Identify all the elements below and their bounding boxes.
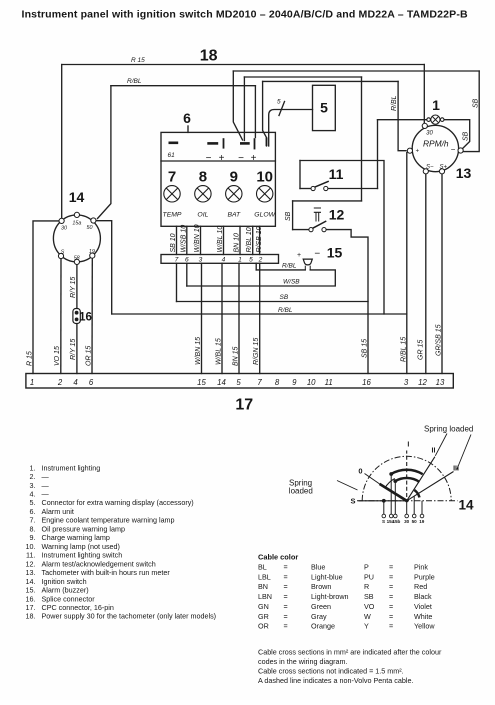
terminal stems bbox=[384, 474, 422, 514]
terminal 19 bbox=[90, 253, 95, 258]
wire drop to switch 12 bbox=[361, 77, 363, 201]
svg-text:3: 3 bbox=[404, 378, 409, 387]
svg-text:SB 10: SB 10 bbox=[170, 233, 177, 252]
lamp 1 instrument lighting bbox=[427, 115, 444, 124]
svg-text:=: = bbox=[389, 602, 393, 611]
svg-text:6: 6 bbox=[89, 378, 94, 387]
wire BN 15 to pin 5 bbox=[238, 263, 240, 373]
svg-text:Green: Green bbox=[311, 602, 331, 611]
svg-text:—: — bbox=[42, 490, 50, 499]
svg-text:0: 0 bbox=[358, 467, 362, 476]
svg-text:50: 50 bbox=[87, 225, 93, 231]
svg-text:9.: 9. bbox=[30, 533, 36, 542]
terminal 50 bbox=[91, 218, 96, 223]
svg-text:15: 15 bbox=[327, 245, 343, 261]
svg-text:—: — bbox=[42, 481, 50, 490]
svg-text:8: 8 bbox=[199, 169, 207, 186]
svg-text:2: 2 bbox=[258, 257, 263, 264]
wire R/GN 15 to pin 7 bbox=[259, 263, 261, 373]
wire drop to ignition 30 bbox=[61, 65, 63, 221]
wire rail 18 (R 15 power supply 30) bbox=[62, 64, 425, 66]
svg-text:W/SB: W/SB bbox=[283, 278, 300, 285]
wire SB 15 switch 12 to pin 16 bbox=[326, 230, 368, 374]
svg-text:Light-blue: Light-blue bbox=[311, 572, 343, 581]
schematic text labels bbox=[69, 48, 472, 414]
svg-text:12.: 12. bbox=[26, 559, 36, 568]
tach S+ wire bbox=[441, 174, 443, 374]
svg-text:14: 14 bbox=[458, 498, 474, 513]
wire to switch 12 left contact bbox=[293, 229, 309, 231]
wire R/BL to buzzer plus bbox=[256, 269, 305, 271]
svg-text:14: 14 bbox=[217, 378, 226, 387]
svg-text:7.: 7. bbox=[30, 516, 36, 525]
wire R/Y 15 splice 16 to pin 4 bbox=[76, 324, 78, 374]
svg-text:50: 50 bbox=[412, 519, 418, 524]
svg-text:Connector for extra warning di: Connector for extra warning display (acc… bbox=[42, 498, 194, 507]
svg-text:1: 1 bbox=[238, 257, 242, 264]
svg-text:=: = bbox=[389, 562, 393, 571]
svg-text:14.: 14. bbox=[26, 577, 36, 586]
svg-text:PU: PU bbox=[364, 572, 374, 581]
svg-text:White: White bbox=[414, 612, 432, 621]
svg-text:GR: GR bbox=[258, 612, 269, 621]
svg-text:=: = bbox=[389, 572, 393, 581]
svg-text:10: 10 bbox=[307, 378, 316, 387]
svg-text:Light-brown: Light-brown bbox=[311, 592, 349, 601]
svg-text:4: 4 bbox=[73, 378, 78, 387]
switch 11 contacts and lever bbox=[311, 181, 329, 190]
footnotes bbox=[258, 648, 442, 686]
wire switch 11 left leg bbox=[299, 161, 301, 189]
lamp 7 TEMP bbox=[164, 186, 180, 202]
warning lamps 7 8 9 10 bbox=[164, 186, 273, 202]
svg-text:Instrument lighting: Instrument lighting bbox=[42, 463, 101, 472]
svg-text:Oil pressure warning lamp: Oil pressure warning lamp bbox=[42, 524, 126, 533]
leader spring loaded left bbox=[337, 481, 358, 491]
svg-text:W/BN 15: W/BN 15 bbox=[195, 337, 202, 365]
svg-text:Red: Red bbox=[414, 582, 427, 591]
svg-text:Alarm unit: Alarm unit bbox=[42, 507, 74, 516]
svg-text:BAT: BAT bbox=[227, 212, 241, 219]
svg-text:18.: 18. bbox=[26, 612, 36, 621]
svg-text:LBL: LBL bbox=[258, 572, 271, 581]
svg-text:7: 7 bbox=[175, 257, 179, 264]
svg-text:−: − bbox=[206, 153, 212, 164]
svg-text:1.: 1. bbox=[30, 463, 36, 472]
svg-text:Purple: Purple bbox=[414, 572, 435, 581]
terminal 30 bbox=[59, 218, 64, 223]
terminal bar minus B bbox=[240, 142, 250, 145]
svg-text:R 15: R 15 bbox=[27, 351, 34, 366]
leader spring loaded right bbox=[435, 434, 471, 470]
svg-text:12: 12 bbox=[329, 207, 345, 223]
svg-text:Warning lamp (not used): Warning lamp (not used) bbox=[42, 542, 120, 551]
svg-text:S+: S+ bbox=[440, 165, 448, 171]
svg-text:R/BL 15: R/BL 15 bbox=[400, 337, 407, 362]
svg-text:Splice connector: Splice connector bbox=[42, 594, 96, 603]
S solid line bbox=[359, 500, 407, 502]
svg-text:4: 4 bbox=[222, 257, 226, 264]
wire drop to alarm unit bar bbox=[243, 77, 245, 141]
svg-text:Engine coolant temperature war: Engine coolant temperature warning lamp bbox=[42, 516, 175, 525]
svg-text:15a: 15a bbox=[72, 221, 81, 227]
position I dash line bbox=[406, 451, 408, 498]
baseline dash-dot bbox=[357, 500, 458, 502]
svg-text:S: S bbox=[350, 497, 355, 506]
svg-text:Violet: Violet bbox=[414, 602, 432, 611]
svg-text:19: 19 bbox=[89, 249, 95, 255]
svg-text:Pink: Pink bbox=[414, 562, 428, 571]
svg-text:11: 11 bbox=[325, 378, 333, 387]
svg-text:+: + bbox=[251, 153, 257, 164]
svg-text:6: 6 bbox=[185, 257, 189, 264]
svg-text:R/GN 15: R/GN 15 bbox=[253, 338, 260, 365]
svg-text:GR/SB 15: GR/SB 15 bbox=[436, 324, 443, 356]
wire to switch 11 left contact bbox=[300, 188, 311, 190]
svg-text:15b: 15b bbox=[392, 519, 400, 524]
wire W/SB 10 bbox=[186, 226, 188, 254]
svg-text:Orange: Orange bbox=[311, 622, 335, 631]
svg-text:codes in the wiring diagram.: codes in the wiring diagram. bbox=[258, 657, 348, 666]
svg-text:I: I bbox=[407, 442, 409, 449]
svg-text:8: 8 bbox=[275, 378, 280, 387]
wire SB to alarm bbox=[176, 263, 178, 301]
terminal bar minus A bbox=[207, 142, 218, 145]
svg-text:18: 18 bbox=[200, 48, 218, 65]
svg-text:Cable cross sections in mm² ar: Cable cross sections in mm² are indicate… bbox=[258, 648, 442, 657]
svg-text:II: II bbox=[432, 448, 436, 455]
arc dash-dot bbox=[362, 456, 451, 501]
travel arc II bold bbox=[391, 470, 423, 474]
svg-text:−: − bbox=[451, 145, 456, 154]
svg-text:Blue: Blue bbox=[311, 562, 325, 571]
wire drop to alarm unit minus bbox=[233, 71, 242, 140]
terminal pin bus bbox=[266, 138, 268, 147]
wire R/SB 10 bbox=[259, 226, 261, 254]
svg-text:Black: Black bbox=[414, 592, 432, 601]
wire rail to switch 11 bbox=[244, 76, 361, 78]
mini connector strip under box 6 bbox=[161, 255, 279, 264]
wire lamp1 drop to switch 11 bbox=[377, 120, 379, 189]
svg-text:III: III bbox=[453, 466, 459, 473]
svg-text:30: 30 bbox=[426, 131, 433, 137]
box alarm unit 6 bbox=[161, 132, 275, 226]
wire R15 drop to lamp 1 / tach 30 bbox=[423, 65, 425, 124]
svg-text:2: 2 bbox=[57, 378, 63, 387]
svg-text:17.: 17. bbox=[26, 603, 36, 612]
svg-text:=: = bbox=[389, 592, 393, 601]
svg-text:15: 15 bbox=[197, 378, 206, 387]
svg-text:=: = bbox=[284, 612, 288, 621]
svg-text:Yellow: Yellow bbox=[414, 622, 435, 631]
svg-text:13: 13 bbox=[436, 378, 445, 387]
terminal pin plus B bbox=[254, 138, 256, 149]
svg-text:Brown: Brown bbox=[311, 582, 331, 591]
svg-text:=: = bbox=[389, 622, 393, 631]
key diagram terminals bbox=[382, 514, 386, 518]
svg-text:Y: Y bbox=[364, 622, 369, 631]
svg-text:=: = bbox=[389, 612, 393, 621]
svg-text:R/SB 10: R/SB 10 bbox=[256, 226, 263, 252]
svg-text:LBN: LBN bbox=[258, 592, 272, 601]
svg-text:A dashed line indicates a non-: A dashed line indicates a non-Volvo Pent… bbox=[258, 676, 413, 685]
svg-text:30: 30 bbox=[61, 226, 67, 232]
terminal pin plus A bbox=[223, 138, 225, 148]
wire W/SB to alarm bbox=[186, 263, 188, 286]
svg-text:—: — bbox=[42, 472, 50, 481]
svg-text:5: 5 bbox=[320, 100, 328, 116]
tach + wire down to pin 3 bbox=[406, 153, 408, 374]
svg-text:OR 15: OR 15 bbox=[86, 346, 93, 366]
wire BN 10 bbox=[239, 226, 241, 254]
thin arc from lever bbox=[385, 479, 395, 489]
wire VO 15 ignition S to pin 2 bbox=[60, 259, 62, 374]
wire R/BL rail to panel + bbox=[111, 85, 256, 87]
svg-text:S−: S− bbox=[426, 165, 434, 171]
svg-text:SB: SB bbox=[280, 294, 289, 301]
svg-text:=: = bbox=[284, 622, 288, 631]
tach terminals bbox=[422, 123, 427, 128]
wire R 15 ignition 30 to pin 1 bbox=[33, 221, 62, 374]
wire R/BL drop to tachometer plus bbox=[398, 81, 406, 150]
svg-text:Alarm test/acknowledgement swi: Alarm test/acknowledgement switch bbox=[42, 559, 156, 568]
svg-text:=: = bbox=[284, 592, 288, 601]
svg-text:BN 10: BN 10 bbox=[234, 233, 241, 253]
svg-text:19: 19 bbox=[419, 519, 425, 524]
wire R/BL ignition 50 riser bbox=[96, 221, 112, 314]
svg-text:13.: 13. bbox=[26, 568, 36, 577]
svg-text:W/BL 15: W/BL 15 bbox=[216, 338, 223, 365]
svg-text:−: − bbox=[314, 249, 320, 260]
lamp 1 right wire to tach minus bbox=[444, 120, 470, 150]
svg-text:5: 5 bbox=[249, 257, 253, 264]
small bold arc near center bbox=[414, 490, 419, 497]
svg-text:R/BL 10: R/BL 10 bbox=[246, 227, 253, 252]
svg-text:2.: 2. bbox=[30, 472, 36, 481]
wire switch 12 top edge bbox=[293, 200, 362, 202]
svg-text:Alarm (buzzer): Alarm (buzzer) bbox=[42, 586, 89, 595]
leader 6 bbox=[187, 126, 189, 132]
svg-text:W/SB 10: W/SB 10 bbox=[180, 225, 187, 253]
svg-text:BL: BL bbox=[258, 562, 267, 571]
svg-text:SB: SB bbox=[473, 98, 480, 108]
svg-text:Cable cross sections not indic: Cable cross sections not indicated = 1.5… bbox=[258, 667, 404, 676]
svg-text:R/BL: R/BL bbox=[391, 95, 398, 111]
svg-text:SB: SB bbox=[463, 131, 470, 141]
svg-text:4.: 4. bbox=[30, 490, 36, 499]
wire lamp1 left horizontal bbox=[378, 119, 429, 121]
lamp 10 GLOW bbox=[257, 186, 273, 202]
wire OR 15 ignition 19 to pin 6 bbox=[91, 258, 93, 373]
svg-text:SB 15: SB 15 bbox=[362, 339, 369, 358]
svg-text:S: S bbox=[382, 519, 385, 524]
splice connector 16 bbox=[73, 309, 80, 324]
line to II bbox=[407, 457, 435, 501]
wire SB drop to tachometer minus bbox=[464, 71, 480, 152]
svg-text:=: = bbox=[284, 582, 288, 591]
tachometer 13 body bbox=[412, 125, 458, 171]
arc end dots bbox=[389, 472, 393, 476]
svg-text:5: 5 bbox=[236, 378, 241, 387]
svg-text:R/BL: R/BL bbox=[278, 307, 293, 314]
svg-text:7: 7 bbox=[168, 169, 176, 186]
svg-text:R 15: R 15 bbox=[131, 57, 145, 64]
svg-text:+: + bbox=[297, 252, 301, 259]
wire switch 11 top loop to R/BL bbox=[300, 161, 384, 315]
svg-text:11.: 11. bbox=[26, 551, 35, 560]
svg-text:9: 9 bbox=[292, 378, 297, 387]
svg-text:R/BL: R/BL bbox=[127, 78, 142, 85]
ignition key position diagram bbox=[337, 434, 471, 515]
svg-text:SB: SB bbox=[364, 592, 374, 601]
svg-text:1: 1 bbox=[432, 97, 440, 113]
wire W/BL 15 to pin 14 bbox=[221, 263, 223, 373]
svg-text:58: 58 bbox=[74, 256, 80, 262]
ignition switch 14 body bbox=[53, 215, 100, 262]
svg-text:TEMP: TEMP bbox=[163, 212, 182, 219]
svg-text:Tachometer with built-in hours: Tachometer with built-in hours run meter bbox=[42, 568, 171, 577]
svg-text:=: = bbox=[284, 562, 288, 571]
svg-text:GR 15: GR 15 bbox=[418, 340, 425, 360]
wire SB rail bbox=[233, 70, 479, 72]
svg-text:17: 17 bbox=[235, 397, 253, 414]
svg-text:VO: VO bbox=[364, 602, 375, 611]
wire R/BL ignition 50 to pin 3 bbox=[112, 313, 407, 315]
wire R/BL 10 bbox=[252, 226, 254, 254]
wire drop R/BL to alarm unit plus bbox=[254, 86, 256, 138]
svg-text:5: 5 bbox=[277, 99, 281, 106]
wire switch 11 right contact to lamp 1 bbox=[328, 188, 378, 190]
svg-text:Instrument panel with ignition: Instrument panel with ignition switch MD… bbox=[22, 9, 468, 21]
line to III bbox=[407, 472, 454, 501]
wire SB to pin 16 bbox=[177, 301, 369, 303]
terminal 58 bbox=[74, 259, 79, 264]
wire W/BL 10 bbox=[223, 226, 225, 254]
wire W/SB buzzer minus bbox=[187, 270, 335, 286]
wire W/BN 10 bbox=[200, 226, 202, 254]
svg-text:Ignition switch: Ignition switch bbox=[42, 577, 87, 586]
leader to 0 bbox=[365, 474, 380, 484]
svg-text:=: = bbox=[284, 602, 288, 611]
svg-text:+: + bbox=[416, 149, 420, 155]
svg-text:6.: 6. bbox=[30, 507, 36, 516]
svg-text:3.: 3. bbox=[30, 481, 36, 490]
svg-text:GLOW: GLOW bbox=[254, 212, 275, 219]
svg-text:=: = bbox=[284, 572, 288, 581]
svg-text:+: + bbox=[219, 153, 225, 164]
svg-text:R/Y 15: R/Y 15 bbox=[70, 277, 77, 298]
svg-text:14: 14 bbox=[69, 189, 85, 205]
wire drop to ignition 50 bbox=[98, 86, 111, 219]
lamp 8 OIL bbox=[195, 186, 211, 202]
svg-text:CPC connector, 16-pin: CPC connector, 16-pin bbox=[42, 603, 114, 612]
svg-text:Power supply 30 for the tachom: Power supply 30 for the tachometer (only… bbox=[42, 612, 217, 621]
svg-text:Charge warning lamp: Charge warning lamp bbox=[42, 533, 110, 542]
wire R/Y 15 ignition 58 to splice 16 bbox=[76, 265, 78, 309]
wire R/BL stub to buzzer plus bbox=[255, 263, 257, 270]
svg-text:BN: BN bbox=[258, 582, 268, 591]
svg-text:16: 16 bbox=[79, 312, 92, 324]
svg-text:R: R bbox=[364, 582, 369, 591]
svg-text:BN 15: BN 15 bbox=[233, 346, 240, 366]
svg-text:10.: 10. bbox=[26, 542, 36, 551]
key lever bold bbox=[380, 484, 407, 501]
svg-text:W: W bbox=[364, 612, 371, 621]
svg-text:=: = bbox=[389, 582, 393, 591]
wire W/BN 15 to pin 15 bbox=[201, 263, 203, 373]
svg-text:12: 12 bbox=[418, 378, 427, 387]
terminal S bbox=[58, 253, 63, 258]
svg-text:11: 11 bbox=[329, 166, 344, 182]
svg-text:9: 9 bbox=[230, 169, 238, 186]
svg-text:−: − bbox=[238, 153, 244, 164]
svg-text:3: 3 bbox=[199, 257, 203, 264]
svg-text:loaded: loaded bbox=[289, 486, 313, 495]
tach S- wire bbox=[425, 174, 427, 374]
wire SB 10 bbox=[176, 226, 178, 254]
buzzer 15 bbox=[303, 259, 312, 270]
svg-text:7: 7 bbox=[257, 378, 262, 387]
svg-text:OR: OR bbox=[258, 622, 269, 631]
svg-text:W/BL 10: W/BL 10 bbox=[217, 226, 224, 253]
svg-text:6: 6 bbox=[183, 110, 191, 126]
svg-text:13: 13 bbox=[456, 165, 472, 181]
svg-text:16.: 16. bbox=[26, 594, 36, 603]
pivot dot bbox=[405, 499, 408, 502]
svg-text:5.: 5. bbox=[30, 498, 36, 507]
svg-text:RPM/h: RPM/h bbox=[423, 139, 449, 149]
travel arc III bold bbox=[395, 478, 419, 482]
svg-text:10: 10 bbox=[256, 169, 273, 186]
svg-text:S: S bbox=[61, 250, 65, 256]
lamp 9 BAT bbox=[226, 186, 242, 202]
svg-text:W/BN 10: W/BN 10 bbox=[194, 224, 201, 252]
wire SB switch 12 left leg bbox=[292, 201, 294, 230]
bus slash mark bbox=[279, 102, 285, 116]
svg-text:1: 1 bbox=[30, 378, 34, 387]
svg-text:R/Y 15: R/Y 15 bbox=[70, 339, 77, 360]
svg-text:VO 15: VO 15 bbox=[54, 346, 61, 366]
svg-text:Spring loaded: Spring loaded bbox=[424, 425, 473, 434]
svg-text:SB: SB bbox=[285, 211, 292, 221]
wire bus from connector 5 bbox=[269, 110, 313, 147]
svg-text:GN: GN bbox=[258, 602, 269, 611]
switch 12 contacts lever and actuator bbox=[309, 208, 326, 232]
CPC connector 17 bbox=[26, 374, 453, 389]
svg-text:15.: 15. bbox=[26, 586, 36, 595]
svg-text:16: 16 bbox=[362, 378, 371, 387]
svg-text:R/BL: R/BL bbox=[282, 263, 297, 270]
svg-text:61: 61 bbox=[168, 152, 176, 159]
dot on S line bbox=[382, 499, 386, 503]
wire R/BL rail to tachometer + bbox=[263, 80, 399, 82]
svg-text:P: P bbox=[364, 562, 369, 571]
terminal 61 bar bbox=[169, 142, 179, 145]
terminal 15a bbox=[74, 212, 79, 217]
svg-text:OIL: OIL bbox=[197, 212, 208, 219]
svg-text:30: 30 bbox=[404, 519, 410, 524]
legend list bbox=[26, 463, 217, 620]
box connector 5 bbox=[313, 85, 336, 130]
wire drop to alarm unit bbox=[263, 81, 267, 146]
svg-text:Cable color: Cable color bbox=[258, 552, 298, 561]
svg-text:Instrument lighting switch: Instrument lighting switch bbox=[42, 551, 123, 560]
svg-text:8.: 8. bbox=[30, 524, 36, 533]
svg-text:Gray: Gray bbox=[311, 612, 327, 621]
